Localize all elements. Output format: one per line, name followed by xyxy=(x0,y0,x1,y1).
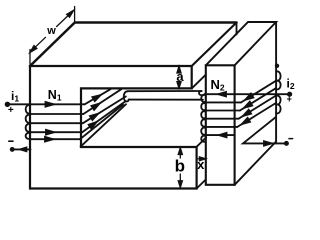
bar top face xyxy=(206,22,276,65)
N2 wire turn 3 xyxy=(205,110,240,112)
dimension a xyxy=(178,68,180,87)
N2 wire turn 2 xyxy=(205,101,241,103)
svg-text:i1: i1 xyxy=(11,89,19,104)
N1 wire turn 3 xyxy=(31,122,83,124)
N2 coil loop 3 (bar back edge) xyxy=(276,96,281,105)
terminal dot (left +) xyxy=(6,103,10,107)
N2 wire turn 4 xyxy=(205,118,239,120)
N2 coil loop 4 (bar back edge) xyxy=(276,104,281,113)
minus sign (left) xyxy=(9,140,13,142)
N1 wire diagonal 5 xyxy=(80,105,123,140)
svg-text:a: a xyxy=(176,69,184,84)
terminal dot (right -) xyxy=(285,142,288,145)
core top-leg back-right edge xyxy=(236,23,238,35)
N1 wire turn 1 xyxy=(7,103,84,105)
N2 coil loop 1 (bar left edge) xyxy=(201,95,205,102)
N1 wire turn 4 xyxy=(31,131,83,133)
bar back-right edge xyxy=(275,22,277,142)
core top-leg right face top edge xyxy=(192,23,237,67)
terminal dot (left -) xyxy=(11,148,14,151)
N1 return wire to - terminal xyxy=(12,148,30,150)
dimension w line xyxy=(31,37,46,51)
svg-text:w: w xyxy=(46,25,56,37)
N2 return diagonal xyxy=(243,117,286,143)
N1 coil loop 3 xyxy=(26,124,31,132)
N2 coil loop 3 (bar left edge) xyxy=(201,111,205,118)
core front face outline (C-shape) xyxy=(30,66,197,189)
window back-edge curl xyxy=(124,91,129,101)
N2 coil loop 6 (bar left edge) xyxy=(201,136,205,142)
core top-leg right face bottom edge xyxy=(192,75,206,89)
core bottom-leg right face bottom edge xyxy=(197,180,206,189)
dimension x arrow xyxy=(197,158,200,160)
N2 wire turn 6 xyxy=(205,134,235,136)
N1 coil loop 2 xyxy=(26,115,31,123)
N1 wire diagonal 2 xyxy=(83,89,121,114)
N1 wire diagonal 1 xyxy=(85,89,111,104)
lead wire A across opening xyxy=(127,90,201,92)
bar bottom-right edge xyxy=(235,142,277,185)
N2 wire diagonal 2 xyxy=(241,81,276,103)
N2 coil loop 1 (bar back edge) xyxy=(276,71,281,80)
bar (armature) front face xyxy=(206,65,235,185)
core bottom-leg right face top edge xyxy=(197,137,207,146)
N2 coil start bump (bar top-right corner) xyxy=(276,65,279,68)
N2 coil loop 2 (bar left edge) xyxy=(201,103,205,110)
terminal dot (right +) xyxy=(288,93,291,96)
svg-text:i2: i2 xyxy=(287,77,295,92)
N1 coil loop 4 xyxy=(26,133,31,139)
svg-text:b: b xyxy=(175,156,185,175)
N1 wire diagonal 4 xyxy=(82,101,125,132)
dimension w ticks xyxy=(30,7,75,65)
N2 wire turn 5 xyxy=(205,126,238,128)
N2 coil loop 5 (bar left edge) xyxy=(201,128,205,135)
window inner corner edge xyxy=(81,104,126,146)
dimension b xyxy=(179,150,181,185)
N1 wire turn 5 xyxy=(31,138,81,140)
N2 coil loop 4 (bar left edge) xyxy=(201,119,205,126)
core top face xyxy=(30,23,237,67)
N1 wire diagonal 3 xyxy=(83,97,126,124)
N2 coil loop 2 (bar back edge) xyxy=(276,81,281,90)
N1 coil loop 1 xyxy=(26,105,31,114)
svg-text:N1: N1 xyxy=(48,88,62,103)
minus sign (right) xyxy=(289,138,293,140)
lead wire B across opening xyxy=(129,99,203,101)
N1 wire turn 2 xyxy=(31,113,84,115)
N2 wire diagonal 5 xyxy=(237,103,276,127)
N2 top wire curl at bar edge xyxy=(199,91,205,95)
svg-text:N2: N2 xyxy=(211,77,225,93)
N2 wire turn 1 (to i2 terminal) xyxy=(205,93,290,95)
N2 wire diagonal 4 xyxy=(239,96,276,119)
svg-text:x: x xyxy=(197,157,205,172)
N2 wire diagonal 3 xyxy=(240,88,276,110)
